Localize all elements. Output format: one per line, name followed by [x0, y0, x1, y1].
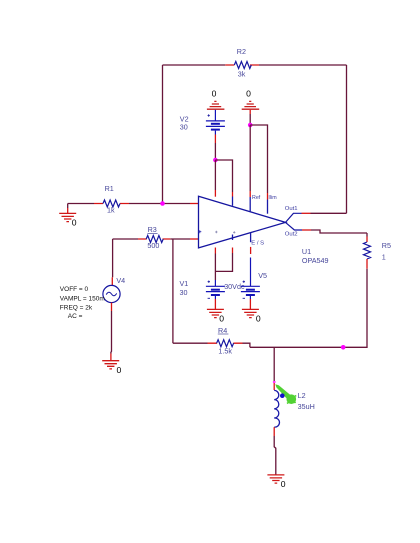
pin E/S of U1: [250, 233, 252, 243]
svg-text:Out1: Out1: [285, 206, 298, 212]
ground above Ref (inverted): [242, 89, 260, 110]
ground below V1: [207, 309, 224, 323]
svg-text:VOFF = 0: VOFF = 0: [60, 286, 89, 293]
svg-text:R1: R1: [105, 184, 114, 193]
wire V4 bottom: [111, 303, 113, 311]
battery V1: [180, 279, 245, 299]
svg-text:V5: V5: [258, 271, 267, 280]
wire R5 down to bottom row: [250, 269, 367, 348]
wire input+ row: [68, 203, 190, 205]
svg-text:1: 1: [382, 253, 386, 262]
svg-text:OPA549: OPA549: [302, 256, 329, 265]
svg-text:500: 500: [147, 241, 159, 250]
V4 parameter text: [60, 286, 105, 320]
svg-text:35uH: 35uH: [298, 402, 315, 411]
svg-text:1k: 1k: [107, 206, 115, 215]
inductor L2: [274, 390, 315, 427]
svg-text:U1: U1: [302, 247, 311, 256]
current marker probe: [275, 384, 296, 404]
node junction Ref: [248, 123, 253, 128]
svg-text:30: 30: [180, 123, 188, 132]
node junction at R1/R2: [160, 201, 165, 206]
pin 2nd V- with jog wire: [232, 235, 234, 241]
svg-text:V4: V4: [116, 276, 125, 285]
svg-text:R5: R5: [382, 241, 391, 250]
svg-text:FREQ = 2k: FREQ = 2k: [60, 304, 93, 311]
svg-text:1.5k: 1.5k: [218, 347, 232, 356]
wire top loop horizontal: [163, 64, 347, 66]
battery V5: [241, 271, 267, 299]
resistor R2: [225, 47, 259, 79]
pin In- stub: [190, 238, 199, 240]
wire Ilim pin: [250, 125, 267, 193]
wire Out2: [286, 222, 303, 230]
wire Ref pin: [249, 125, 251, 191]
wire V+ pins: [214, 160, 216, 190]
svg-text:L2: L2: [298, 391, 306, 400]
svg-text:R4: R4: [218, 326, 227, 335]
resistor R5: [364, 237, 392, 269]
svg-text:R3: R3: [148, 225, 157, 234]
svg-text:E / S: E / S: [251, 240, 264, 246]
svg-text:Ref: Ref: [252, 195, 261, 201]
svg-text:0: 0: [281, 479, 286, 489]
svg-text:0: 0: [256, 314, 261, 324]
pin In+ stub: [190, 203, 199, 205]
wire top loop left vertical: [162, 65, 164, 204]
svg-text:V1: V1: [180, 279, 189, 288]
wire R4 row: [173, 343, 250, 347]
pin V- of U1: [214, 248, 216, 254]
wire input- row: [113, 238, 190, 240]
wire V2 to V+ node: [214, 135, 216, 144]
svg-text:AC =: AC =: [68, 313, 83, 320]
wire V1 to ground: [214, 299, 216, 309]
svg-text:0: 0: [212, 89, 217, 99]
svg-text:VAMPL = 150m: VAMPL = 150m: [60, 295, 105, 302]
wire ground to Ref node: [249, 110, 251, 114]
battery V2: [180, 110, 225, 135]
resistor R4: [208, 326, 243, 356]
wire L2 branch: [273, 347, 275, 381]
svg-text:0: 0: [219, 314, 224, 324]
svg-text:0: 0: [117, 365, 122, 375]
wire V5 to ground: [249, 299, 251, 309]
ground below V5: [242, 309, 261, 323]
ground above V2 (inverted): [207, 89, 225, 110]
ground below V4: [102, 361, 121, 376]
wire to R5: [366, 233, 368, 237]
svg-text:R2: R2: [237, 47, 246, 56]
source V4: [103, 276, 125, 302]
wire V4 top: [112, 239, 114, 277]
op-amp U1: [198, 195, 328, 265]
svg-text:30: 30: [180, 288, 188, 297]
node junction V+: [213, 158, 218, 163]
ground below L2: [267, 475, 285, 489]
svg-text:Out2: Out2: [285, 232, 298, 238]
wire feedback vertical: [172, 239, 174, 343]
resistor R3: [138, 225, 170, 250]
svg-text:0: 0: [246, 89, 251, 99]
wire top loop right vertical: [346, 65, 348, 213]
svg-text:Ilim: Ilim: [268, 195, 277, 201]
node junction bottom: [341, 345, 346, 350]
ground near R1: [59, 204, 77, 228]
resistor R1: [94, 184, 129, 215]
svg-text:3k: 3k: [238, 69, 246, 78]
svg-text:0: 0: [72, 217, 77, 227]
pin end marker: [273, 381, 276, 383]
wire Out1: [286, 213, 302, 222]
